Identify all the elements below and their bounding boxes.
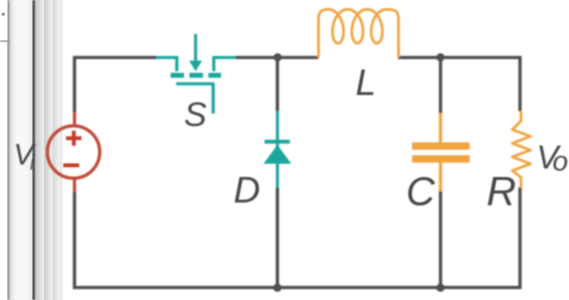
- wire diode column top: [276, 56, 279, 111]
- node junction bottom of diode: [273, 284, 281, 292]
- node junction top of diode: [274, 53, 282, 61]
- transistor S right teal wire: [214, 58, 236, 72]
- svg-text:i: i: [30, 153, 35, 175]
- resistor R zigzag: [512, 111, 530, 188]
- diode D cathode bar: [265, 140, 290, 144]
- transistor S arrow shaft: [194, 34, 197, 62]
- page edge gradient bands right of dark line: [35, 0, 44, 300]
- transistor S left teal wire: [156, 58, 177, 72]
- wire top rail left segment with corner: [75, 58, 157, 113]
- wire capacitor column top: [439, 56, 442, 113]
- left panel border line: [7, 0, 9, 300]
- transistor S arrow head: [189, 61, 202, 72]
- transistor S gate line and lead: [176, 84, 213, 114]
- diode D teal lead: [276, 111, 279, 188]
- capacitor C top lead: [439, 113, 442, 142]
- node junction bottom of capacitor: [436, 284, 444, 292]
- transistor S middle contact bar: [189, 73, 203, 78]
- svg-text:R: R: [487, 168, 517, 214]
- voltage source plus sign: [66, 131, 82, 146]
- capacitor C bottom plate: [412, 155, 470, 162]
- left panel page-edge shading: [10, 0, 17, 300]
- top-left white box: [0, 0, 7, 41]
- wire diode column bottom: [276, 187, 279, 287]
- svg-text:C: C: [406, 170, 436, 214]
- voltage source minus sign: [63, 163, 79, 167]
- wire left column below source, bottom rail, right column bottom: [75, 187, 521, 287]
- inductor L coil: [319, 9, 399, 57]
- transistor S drain contact bar: [208, 73, 221, 78]
- wire capacitor column bottom: [439, 191, 442, 288]
- svg-text:D: D: [234, 170, 261, 211]
- wire top rail: mosfet right to inductor left: [236, 56, 319, 59]
- svg-text:L: L: [356, 62, 377, 103]
- transistor S source contact bar: [171, 73, 184, 78]
- capacitor C top plate: [412, 142, 470, 149]
- wire top rail: inductor right to top-right corner, down to resistor: [398, 58, 520, 112]
- tiny mark in top-left box: [2, 13, 5, 15]
- svg-text:S: S: [184, 96, 207, 134]
- diode D triangle: [264, 145, 292, 164]
- capacitor C bottom lead: [439, 163, 442, 192]
- dark page edge line: [33, 0, 36, 300]
- node junction top of capacitor: [436, 53, 444, 61]
- voltage source Vi leads: [73, 112, 76, 192]
- voltage source Vi circle: [47, 126, 99, 178]
- svg-text:o: o: [553, 146, 569, 177]
